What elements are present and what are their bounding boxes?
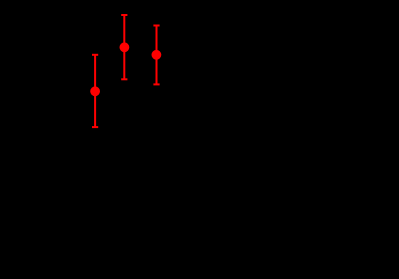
data point 1 error bar: [92, 55, 98, 127]
data point 2 error bar: [121, 15, 127, 79]
data point 2 marker: [120, 42, 130, 52]
data point 1 marker: [90, 86, 100, 96]
data point 3 marker: [152, 50, 162, 60]
data point 3 error bar: [153, 26, 159, 85]
